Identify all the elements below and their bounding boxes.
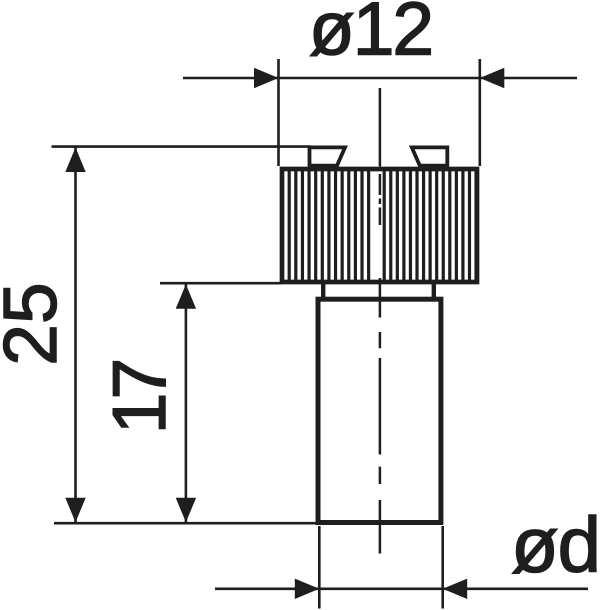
dim 25/17 bottom extension line [54, 522, 318, 525]
neck left edge [321, 282, 325, 299]
dim o12 right extension line [478, 59, 481, 166]
knurled head outline [282, 169, 477, 282]
svg-text:17: 17 [97, 362, 181, 435]
dim o12 left extension line [277, 59, 280, 166]
shaft outline [318, 299, 441, 522]
dim od left extension line [318, 526, 321, 609]
dim 17 dimension line [185, 284, 188, 522]
knurl lines [289, 170, 476, 281]
dim od dimension line [215, 587, 588, 590]
right slot [412, 147, 448, 165]
dim od right arrow [443, 579, 468, 599]
neck right edge [432, 282, 436, 299]
dim o12 right arrow [480, 68, 505, 88]
dim od left arrow [295, 579, 320, 599]
centerline [379, 88, 382, 554]
dim od right extension line [441, 526, 444, 609]
dim 25 dimension line [74, 148, 77, 523]
svg-text:ø12: ø12 [309, 0, 432, 71]
svg-text:ød: ød [511, 501, 600, 589]
left slot [310, 147, 346, 165]
dim 17 bottom arrow [176, 498, 196, 523]
svg-text:25: 25 [0, 282, 72, 365]
dim 25 bottom arrow [65, 498, 85, 523]
dim 25 top arrow [65, 148, 85, 173]
dim o12 dimension line [183, 77, 577, 80]
dim o12 left arrow [254, 68, 279, 88]
dim 25 top extension line [52, 145, 312, 148]
dim 17 top extension line [160, 282, 281, 285]
dim 17 top arrow [176, 284, 196, 309]
